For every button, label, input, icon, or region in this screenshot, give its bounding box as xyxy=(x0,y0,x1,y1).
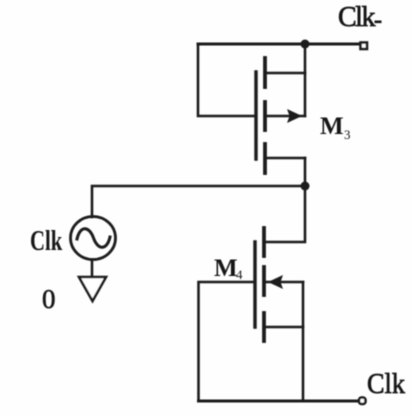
M3 source lead xyxy=(265,157,305,160)
label M3 xyxy=(320,113,351,142)
wire: top rail (net Clk-) xyxy=(198,43,361,46)
M4 bulk lead xyxy=(264,281,303,284)
M3 drain lead xyxy=(265,72,305,75)
voltage source V1 (Clk sine source) xyxy=(71,217,116,260)
M4 bulk arrow (points left, NMOS body) xyxy=(268,275,283,289)
M4 channel middle segment xyxy=(262,267,266,295)
transistor M4 (NMOS, 4-terminal) xyxy=(255,228,303,341)
ground (node 0) xyxy=(79,277,106,301)
svg-text:Clk: Clk xyxy=(367,369,405,400)
wire: M4 gate left and down to bottom rail xyxy=(199,282,256,401)
M3 bulk arrow (points right, PMOS body) xyxy=(287,109,302,123)
wire: M4 bulk/source down to bottom rail xyxy=(302,282,305,401)
wire: M3 gate to Clk- rail xyxy=(198,44,255,116)
svg-text:Clk: Clk xyxy=(338,2,375,33)
M3 channel bottom segment xyxy=(263,144,267,173)
wire: node A left and down to Clk source xyxy=(92,186,305,217)
svg-text:4: 4 xyxy=(236,267,243,282)
wire: source bottom to ground xyxy=(91,260,94,277)
label Clk (bottom net name) xyxy=(367,369,405,400)
terminal: Clk- pin (open square) xyxy=(361,43,368,50)
M3 channel top segment xyxy=(263,58,267,87)
terminal: Clk pin (open square) xyxy=(359,398,366,405)
M3 gate bar xyxy=(254,72,257,159)
node A: junction of M3 source, M4 drain and Clk source xyxy=(301,182,310,191)
wire: node A down to M4 drain xyxy=(264,186,305,242)
svg-text:Clk: Clk xyxy=(30,226,62,257)
wire: bottom rail (net Clk) xyxy=(199,400,360,403)
wire: M3 source down to node A xyxy=(304,158,307,186)
label Clk- (top net name) xyxy=(338,2,382,33)
M4 gate bar xyxy=(253,242,256,327)
label M4 xyxy=(214,255,243,282)
sine symbol inside source xyxy=(77,229,110,248)
svg-text:M: M xyxy=(214,255,238,282)
M4 channel top segment xyxy=(262,228,266,256)
M4 source lead xyxy=(264,326,303,329)
node: junction of M3 drain/bulk with Clk- rail xyxy=(301,40,310,49)
label 0 (ground net) xyxy=(42,284,56,314)
label Clk (source name) xyxy=(30,226,62,257)
svg-text:3: 3 xyxy=(344,127,351,142)
M4 channel bottom segment xyxy=(262,313,266,341)
svg-text:0: 0 xyxy=(42,284,56,314)
M3 channel middle segment xyxy=(263,102,267,130)
transistor M3 (PMOS, 4-terminal) xyxy=(256,58,305,173)
M3 bulk lead xyxy=(265,115,305,118)
wire: Clk- rail down to M3 drain and bulk xyxy=(304,44,307,116)
svg-text:M: M xyxy=(320,113,344,140)
